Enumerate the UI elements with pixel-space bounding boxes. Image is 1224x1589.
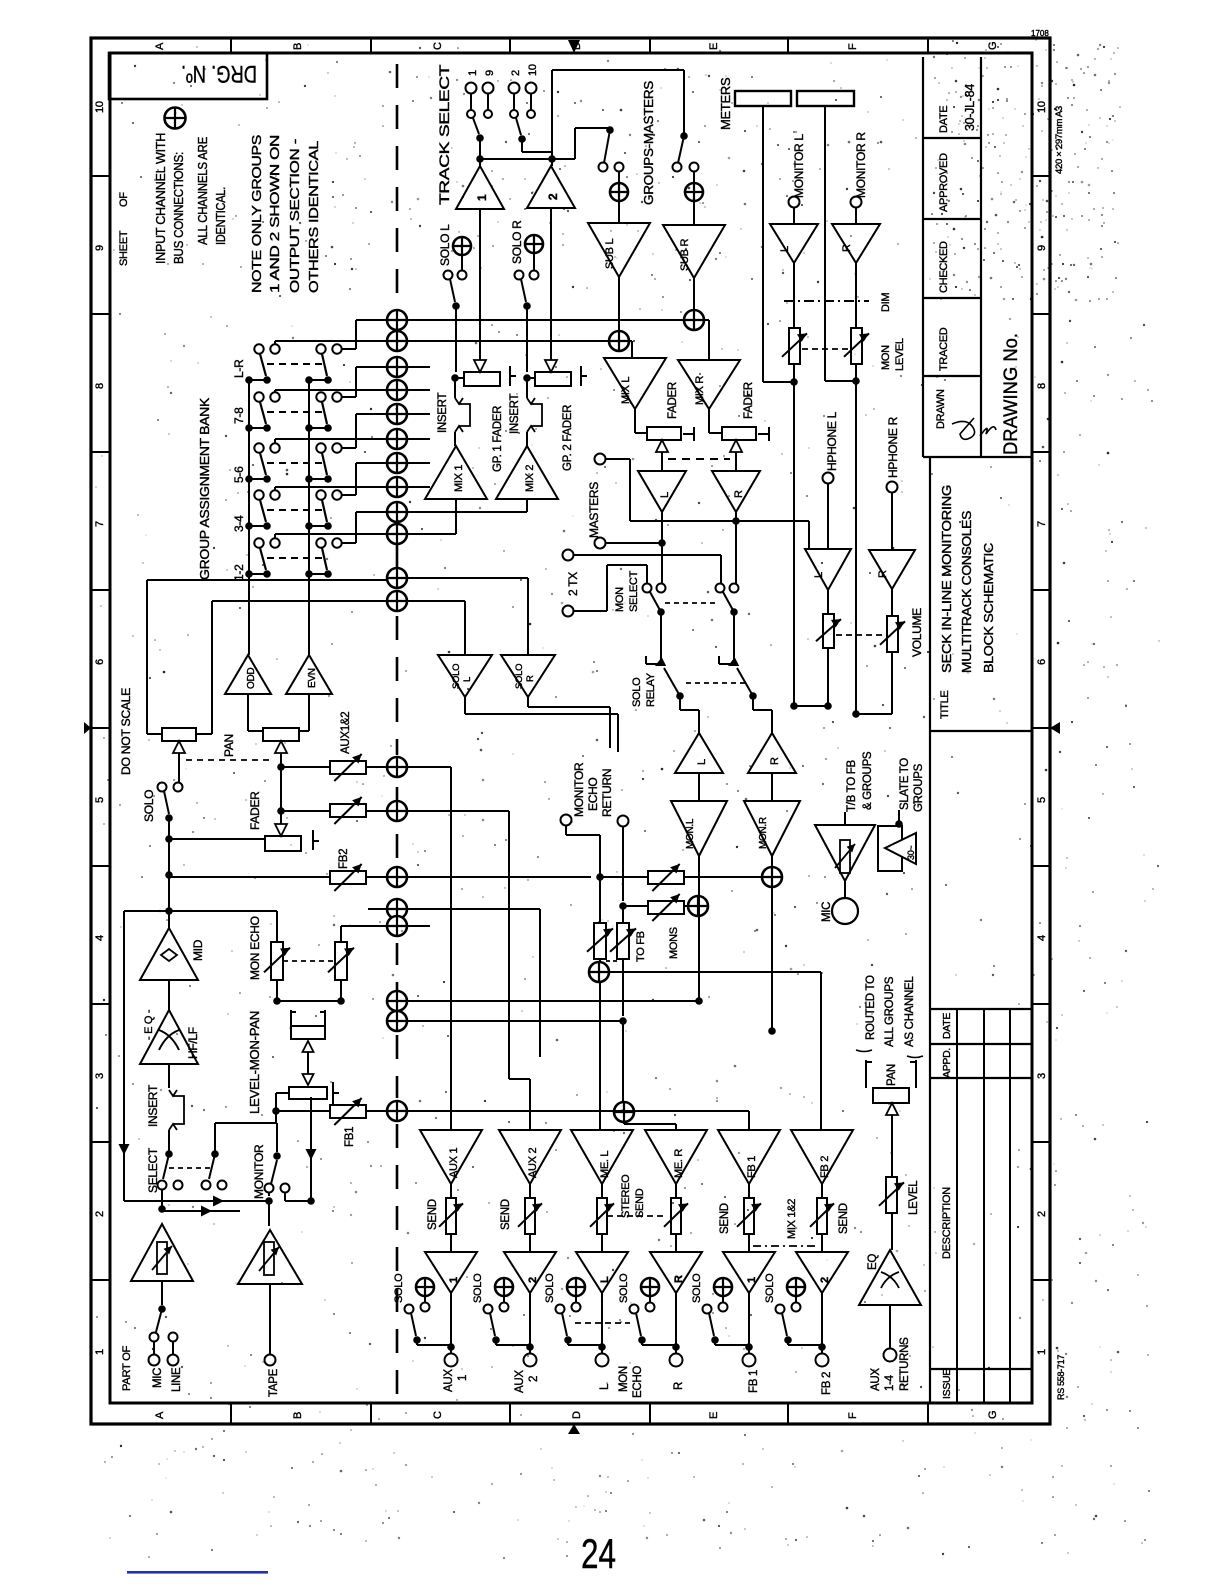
svg-text:FB 1: FB 1 (748, 1370, 760, 1393)
svg-text:RETURNS: RETURNS (899, 1337, 911, 1391)
svg-text:AUX 2: AUX 2 (527, 1148, 539, 1178)
svg-text:L: L (599, 1383, 611, 1390)
svg-text:INPUT CHANNEL WITH: INPUT CHANNEL WITH (153, 133, 168, 264)
svg-text:5: 5 (94, 797, 106, 803)
svg-text:A: A (154, 1411, 166, 1419)
svg-text:MON: MON (614, 587, 626, 612)
svg-text:TRACK SELECT: TRACK SELECT (437, 65, 452, 205)
svg-text:HPHONE L: HPHONE L (825, 411, 839, 471)
svg-text:SEND: SEND (500, 1199, 512, 1230)
svg-text:GP. 2 FADER: GP. 2 FADER (562, 405, 574, 471)
svg-text:MONITOR R: MONITOR R (854, 132, 868, 198)
svg-text:R: R (673, 1382, 685, 1390)
svg-text:INSERT: INSERT (146, 1084, 160, 1127)
svg-text:GP. 1 FADER: GP. 1 FADER (492, 406, 504, 472)
svg-text:B: B (292, 1412, 304, 1419)
svg-text:1: 1 (746, 1277, 758, 1283)
svg-text:FADER: FADER (667, 382, 679, 419)
svg-text:LEVEL: LEVEL (908, 1180, 920, 1215)
svg-text:9: 9 (1036, 245, 1048, 251)
svg-text:SOLO R: SOLO R (510, 220, 524, 264)
svg-text:MID: MID (191, 939, 205, 961)
svg-text:7: 7 (1036, 521, 1048, 527)
svg-text:IDENTICAL.: IDENTICAL. (213, 187, 228, 245)
svg-text:SOLO: SOLO (544, 1273, 556, 1303)
svg-text:3: 3 (94, 1073, 106, 1079)
svg-text:MON ECHO: MON ECHO (248, 916, 262, 980)
svg-text:1: 1 (457, 1375, 469, 1381)
svg-text:APPROVED: APPROVED (938, 153, 950, 212)
svg-text:MULTITRACK CONSOLES: MULTITRACK CONSOLES (960, 511, 974, 673)
svg-text:METERS: METERS (718, 77, 733, 130)
svg-text:L: L (659, 492, 671, 498)
svg-text:FB 2: FB 2 (819, 1156, 831, 1178)
svg-text:D: D (571, 1411, 583, 1419)
svg-text:4: 4 (94, 935, 106, 941)
svg-text:B: B (292, 43, 304, 50)
svg-text:7: 7 (94, 521, 106, 527)
svg-text:DO NOT SCALE: DO NOT SCALE (119, 688, 133, 775)
svg-text:C: C (432, 1411, 444, 1419)
svg-text:1-2: 1-2 (232, 564, 246, 581)
svg-text:AS CHANNEL: AS CHANNEL (904, 976, 916, 1047)
svg-text:T/B TO FB: T/B TO FB (846, 760, 858, 812)
svg-text:E: E (708, 43, 720, 50)
svg-text:8: 8 (1036, 383, 1048, 389)
svg-text:L: L (599, 1276, 611, 1283)
svg-text:SELECT: SELECT (628, 570, 640, 612)
svg-text:AUX 1: AUX 1 (448, 1148, 460, 1178)
svg-text:R: R (877, 570, 889, 578)
svg-text:LEVEL: LEVEL (894, 338, 906, 371)
svg-text:SOLO: SOLO (472, 1273, 484, 1303)
svg-text:MIX 1&2: MIX 1&2 (786, 1199, 798, 1239)
svg-text:ECHO: ECHO (586, 778, 600, 811)
svg-text:C: C (432, 42, 444, 50)
svg-text:PART OF: PART OF (121, 1345, 133, 1391)
svg-text:LINE: LINE (171, 1367, 183, 1392)
svg-text:RELAY: RELAY (645, 672, 657, 707)
svg-text:OTHERS IDENTICAL: OTHERS IDENTICAL (306, 141, 321, 293)
svg-text:ROUTED TO: ROUTED TO (865, 975, 877, 1040)
svg-text:DESCRIPTION: DESCRIPTION (941, 1187, 953, 1259)
svg-text:STEREO: STEREO (620, 1174, 632, 1218)
svg-text:2: 2 (819, 1277, 831, 1283)
svg-text:HPHONE R: HPHONE R (886, 416, 900, 478)
svg-text:SOLO: SOLO (451, 664, 462, 689)
svg-text:R: R (733, 490, 745, 498)
svg-text:F: F (847, 1412, 859, 1419)
svg-text:2: 2 (510, 70, 522, 76)
svg-text:1708: 1708 (1031, 29, 1049, 38)
svg-text:OUTPUT SECTION -: OUTPUT SECTION - (287, 139, 302, 293)
svg-text:SOLO: SOLO (393, 1273, 405, 1303)
svg-text:DRAWN: DRAWN (935, 389, 947, 429)
svg-text:MIX 2: MIX 2 (524, 465, 536, 492)
svg-text:R: R (841, 244, 853, 252)
svg-text:SLATE TO: SLATE TO (899, 758, 911, 810)
svg-text:& GROUPS: & GROUPS (862, 751, 874, 810)
svg-text:SEND: SEND (719, 1203, 731, 1234)
svg-text:L: L (696, 759, 708, 765)
svg-text:SOLO: SOLO (514, 664, 525, 689)
svg-text:GROUPS: GROUPS (913, 763, 925, 812)
svg-text:24: 24 (581, 1530, 616, 1577)
svg-text:1 AND 2 SHOWN ON: 1 AND 2 SHOWN ON (267, 135, 282, 293)
svg-text:TRACED: TRACED (938, 327, 950, 371)
svg-text:R: R (525, 675, 536, 682)
svg-text:420 × 297mm A3: 420 × 297mm A3 (1054, 106, 1065, 174)
svg-text:MONS: MONS (668, 927, 680, 959)
svg-text:1-4: 1-4 (884, 1374, 896, 1391)
svg-text:MIX 1: MIX 1 (453, 465, 465, 492)
svg-text:AUX: AUX (443, 1369, 455, 1392)
svg-text:OF: OF (118, 192, 130, 207)
svg-text:FADER: FADER (248, 791, 262, 830)
svg-text:4: 4 (1036, 935, 1048, 941)
svg-text:3: 3 (1036, 1073, 1048, 1079)
svg-text:FB 1: FB 1 (746, 1156, 758, 1178)
svg-text:SHEET: SHEET (118, 230, 130, 266)
svg-text:CHECKED: CHECKED (938, 241, 950, 293)
svg-text:MONITOR: MONITOR (252, 1144, 266, 1199)
svg-text:ISSUE: ISSUE (941, 1369, 953, 1399)
svg-text:SOLO: SOLO (764, 1273, 776, 1303)
svg-text:2: 2 (546, 193, 560, 200)
svg-text:30~: 30~ (906, 846, 916, 860)
svg-text:BLOCK SCHEMATIC: BLOCK SCHEMATIC (982, 543, 996, 673)
svg-text:SEND: SEND (838, 1203, 850, 1234)
svg-text:G: G (987, 1411, 999, 1419)
svg-text:10: 10 (94, 101, 106, 113)
svg-text:GROUP ASSIGNMENT BANK: GROUP ASSIGNMENT BANK (197, 397, 212, 580)
svg-text:HF/LF: HF/LF (186, 1027, 200, 1059)
svg-text:7-8: 7-8 (232, 407, 246, 424)
svg-text:MASTERS: MASTERS (587, 482, 601, 538)
svg-text:BUS CONNECTIONS:: BUS CONNECTIONS: (171, 152, 186, 264)
svg-text:8: 8 (94, 383, 106, 389)
svg-text:1: 1 (448, 1277, 460, 1283)
svg-text:SEND: SEND (427, 1199, 439, 1230)
svg-text:MON: MON (880, 345, 892, 370)
svg-text:A: A (154, 42, 166, 50)
svg-text:SUB L: SUB L (604, 239, 616, 269)
svg-text:NOTE ONLY GROUPS: NOTE ONLY GROUPS (249, 134, 264, 293)
svg-text:1: 1 (94, 1349, 106, 1355)
svg-text:1: 1 (467, 70, 479, 76)
svg-text:APPD.: APPD. (941, 1048, 953, 1078)
svg-text:SOLO: SOLO (618, 1273, 630, 1303)
svg-text:ME. L: ME. L (599, 1151, 611, 1178)
svg-text:TAPE: TAPE (268, 1368, 280, 1397)
svg-text:F: F (847, 43, 859, 50)
svg-text:DATE: DATE (938, 106, 950, 133)
svg-text:9: 9 (94, 245, 106, 251)
svg-text:ODD: ODD (246, 668, 257, 689)
svg-text:PAN: PAN (222, 734, 236, 757)
svg-text:MON.R: MON.R (758, 817, 769, 849)
svg-text:5: 5 (1036, 797, 1048, 803)
svg-text:EQ: EQ (867, 1254, 879, 1270)
svg-text:DIM: DIM (880, 293, 892, 312)
svg-text:SOLO: SOLO (142, 790, 156, 822)
svg-text:MONITOR L: MONITOR L (792, 134, 806, 198)
svg-text:2: 2 (94, 1211, 106, 1217)
svg-text:G: G (987, 42, 999, 50)
svg-text:AUX: AUX (870, 1368, 882, 1391)
svg-text:SOLO: SOLO (631, 677, 643, 707)
svg-text:5-6: 5-6 (232, 466, 246, 483)
svg-text:DRG. Nº.: DRG. Nº. (181, 60, 257, 87)
svg-text:2: 2 (528, 1376, 540, 1382)
svg-text:ME. R: ME. R (673, 1149, 685, 1178)
svg-text:DRAWING No.: DRAWING No. (1001, 333, 1022, 455)
svg-text:SECK IN-LINE MONITORING: SECK IN-LINE MONITORING (940, 485, 954, 673)
svg-text:VOLUME: VOLUME (910, 608, 924, 657)
svg-text:ALL GROUPS: ALL GROUPS (884, 976, 896, 1047)
svg-text:EVN: EVN (307, 668, 318, 688)
svg-text:AUX1&2: AUX1&2 (340, 712, 352, 754)
svg-text:ALL CHANNELS ARE: ALL CHANNELS ARE (195, 136, 210, 245)
svg-text:L: L (813, 572, 825, 578)
svg-text:- E Q -: - E Q - (143, 1009, 155, 1040)
svg-text:SUB R: SUB R (679, 239, 691, 271)
svg-text:RETURN: RETURN (600, 769, 614, 817)
svg-text:3-4: 3-4 (232, 515, 246, 532)
svg-text:2: 2 (1036, 1211, 1048, 1217)
svg-text:SEND: SEND (634, 1188, 646, 1218)
svg-text:MIX L: MIX L (620, 377, 632, 404)
svg-text:L: L (462, 677, 473, 682)
svg-text:RS 558-717: RS 558-717 (1056, 1355, 1066, 1400)
svg-text:GROUPS-MASTERS: GROUPS-MASTERS (641, 80, 656, 205)
svg-text:6: 6 (94, 659, 106, 665)
svg-text:DATE: DATE (941, 1013, 953, 1039)
svg-text:MIX R: MIX R (694, 376, 706, 405)
svg-text:MIC: MIC (152, 1368, 164, 1388)
svg-text:FB2: FB2 (338, 849, 350, 869)
svg-text:FADER: FADER (743, 382, 755, 419)
svg-text:E: E (708, 1412, 720, 1419)
svg-text:L-R: L-R (232, 359, 246, 378)
svg-text:MON.L: MON.L (685, 818, 696, 849)
svg-text:INSERT: INSERT (509, 394, 521, 434)
svg-text:2 TX: 2 TX (566, 572, 580, 596)
svg-text:6: 6 (1036, 659, 1048, 665)
svg-text:9: 9 (484, 70, 496, 76)
svg-text:L: L (779, 246, 791, 252)
svg-text:10: 10 (1036, 101, 1048, 113)
svg-text:INSERT: INSERT (437, 393, 449, 433)
svg-text:1: 1 (475, 194, 489, 201)
svg-text:FB1: FB1 (344, 1127, 356, 1147)
svg-text:10: 10 (527, 64, 539, 76)
svg-text:2: 2 (527, 1277, 539, 1283)
svg-text:SOLO: SOLO (691, 1273, 703, 1303)
svg-text:AUX: AUX (514, 1370, 526, 1393)
svg-text:PAN: PAN (886, 1064, 898, 1086)
svg-text:ECHO: ECHO (632, 1366, 644, 1398)
svg-text:SOLO L: SOLO L (438, 224, 452, 266)
svg-text:MONITOR: MONITOR (572, 762, 586, 817)
svg-text:MON: MON (618, 1366, 630, 1392)
svg-text:TITLE: TITLE (939, 691, 951, 719)
svg-text:LEVEL-MON-PAN: LEVEL-MON-PAN (247, 1011, 262, 1114)
svg-text:30-JL-84: 30-JL-84 (963, 84, 977, 131)
svg-text:MIC: MIC (821, 902, 833, 922)
svg-text:FB 2: FB 2 (821, 1372, 833, 1395)
svg-text:R: R (769, 757, 781, 765)
svg-text:R: R (673, 1275, 685, 1283)
svg-text:TO FB: TO FB (635, 931, 647, 962)
svg-text:1: 1 (1036, 1349, 1048, 1355)
